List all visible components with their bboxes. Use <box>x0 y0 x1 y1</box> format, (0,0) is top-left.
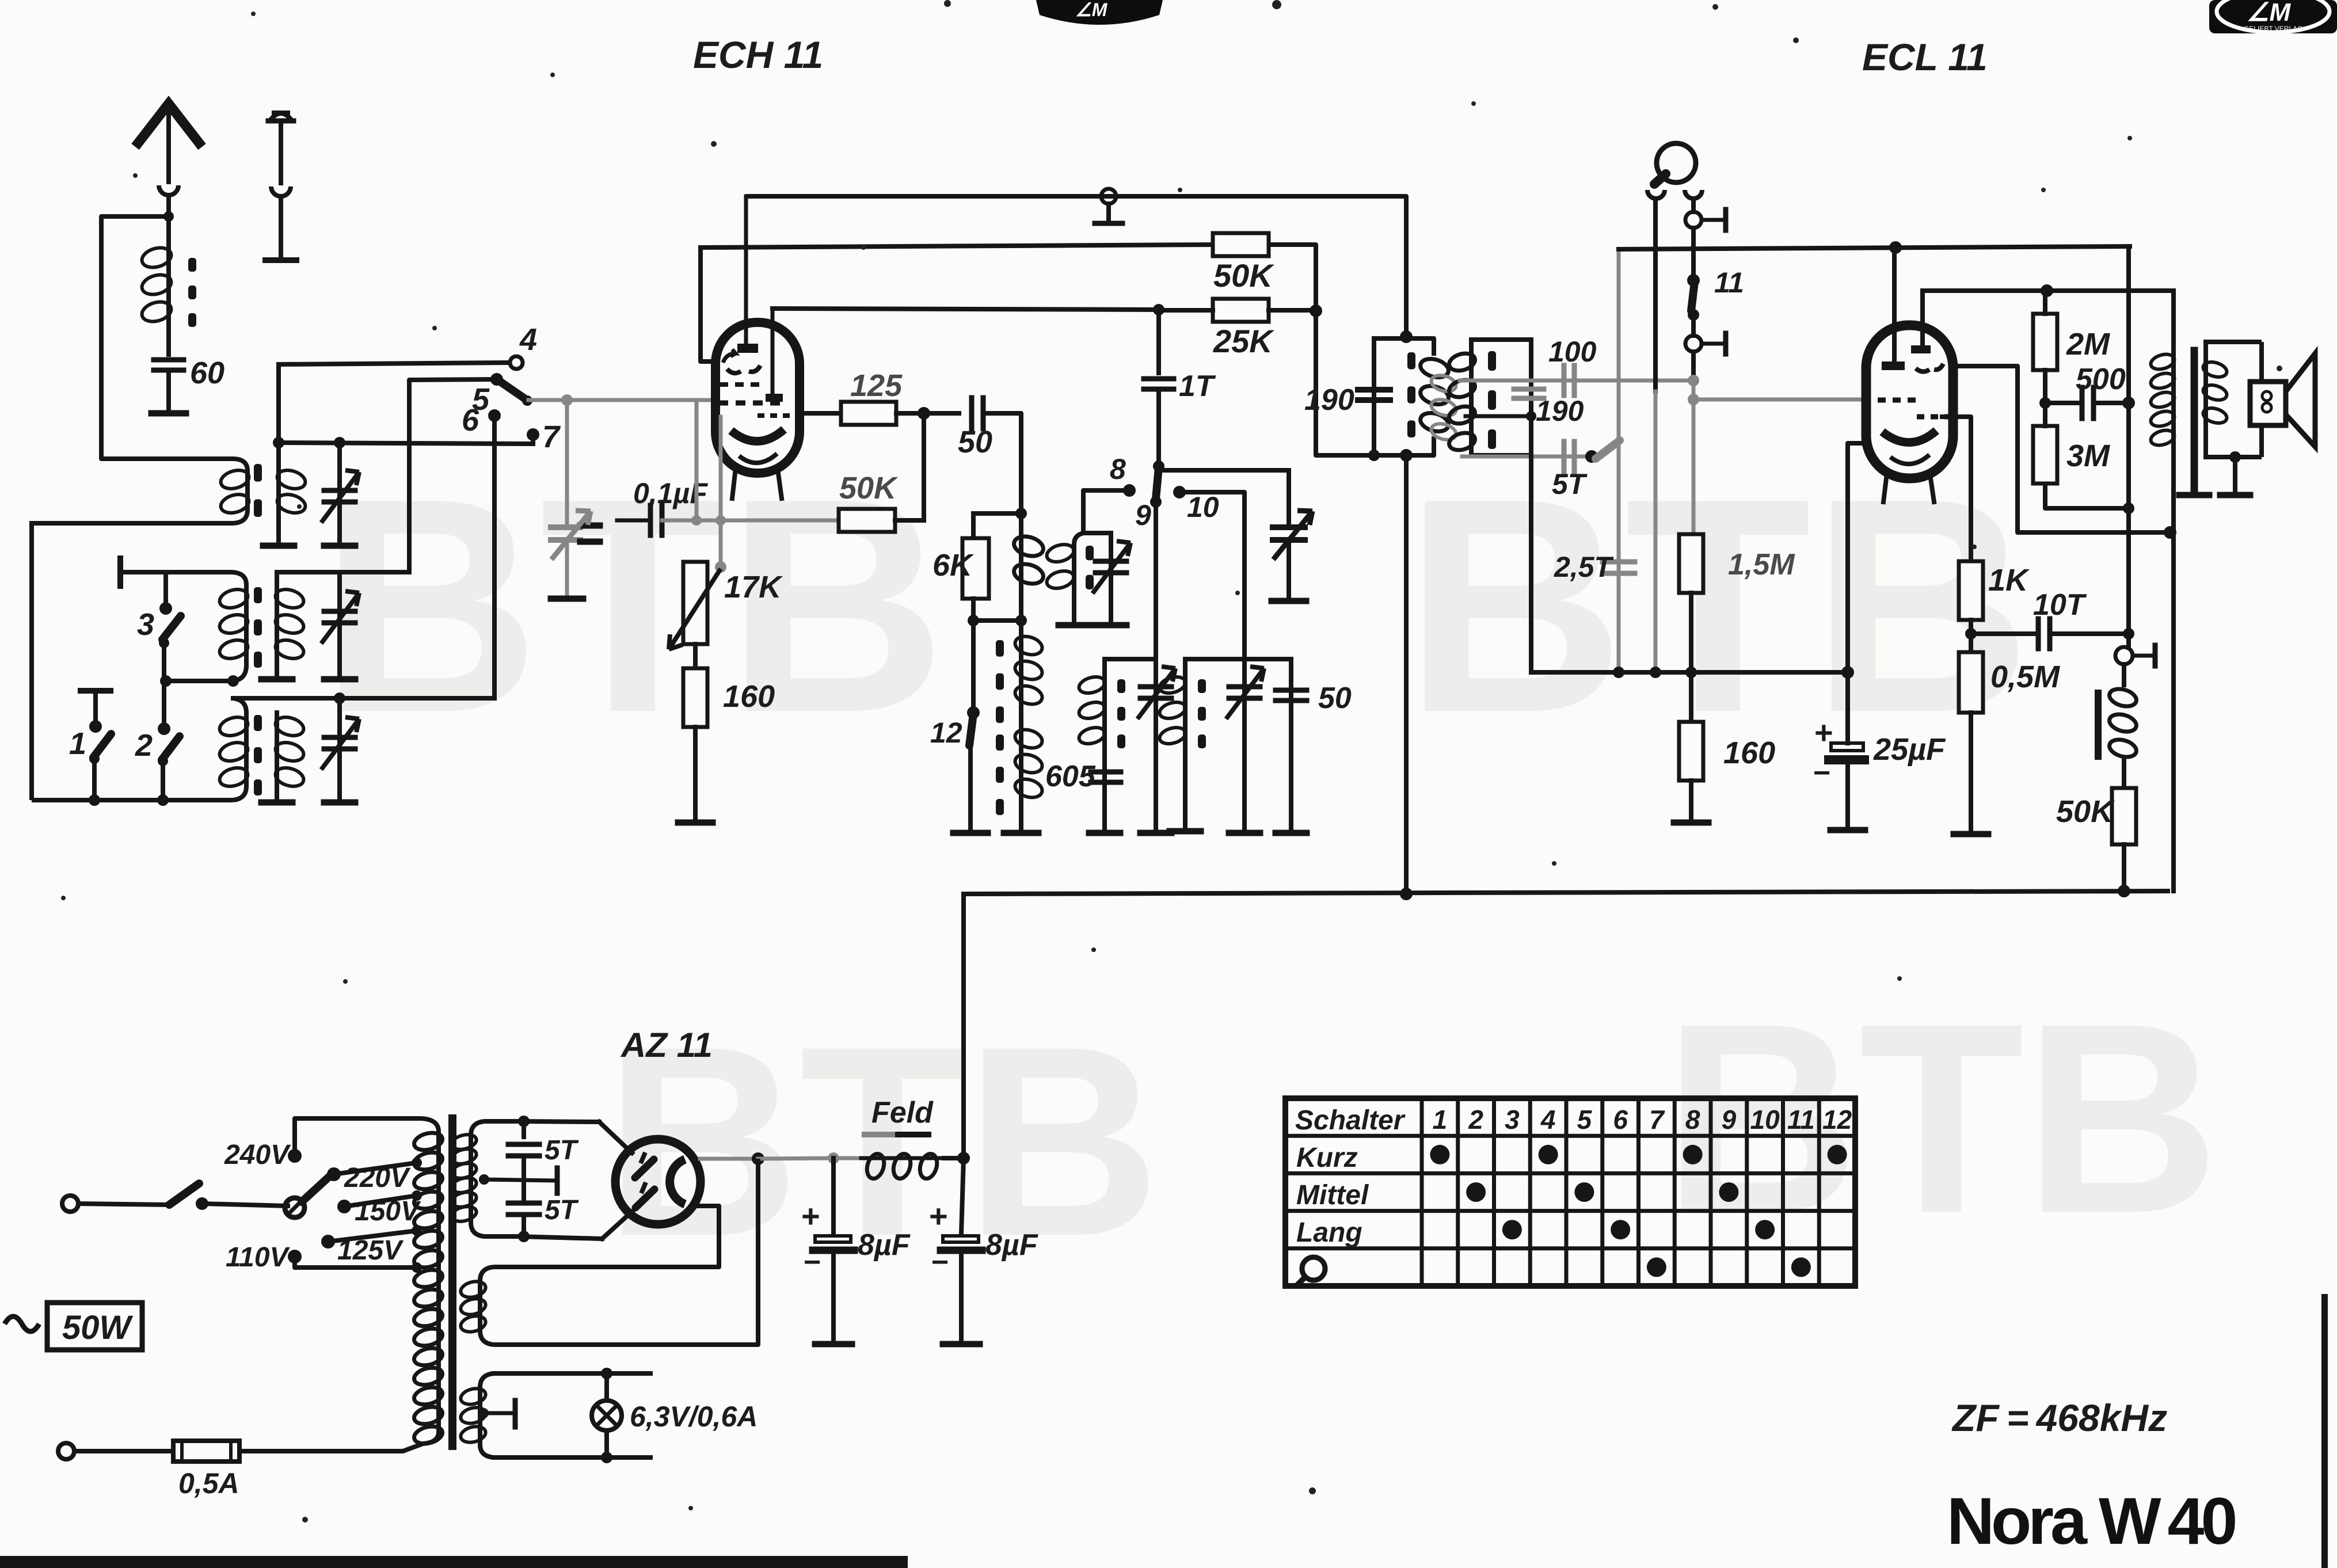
ECL11 plate lead <box>1920 291 1925 345</box>
ground padder <box>1004 830 1038 836</box>
voltage selector rotor <box>285 1198 305 1217</box>
svg-text:50K: 50K <box>2056 794 2115 829</box>
tuning capacitor 1 gray <box>565 400 569 524</box>
svg-text:5T: 5T <box>545 1195 579 1226</box>
wire ECL plate out <box>1953 366 2170 532</box>
wire contact6 down <box>492 422 497 698</box>
wire L2 secondary top <box>277 570 409 574</box>
wire pickup right chain <box>1691 200 1696 212</box>
wire bottom rail left <box>32 798 233 802</box>
ground L1 secondary <box>263 543 294 549</box>
svg-text:12: 12 <box>1822 1105 1852 1135</box>
svg-text:Lang: Lang <box>1296 1217 1362 1248</box>
svg-text:2,5T: 2,5T <box>1554 551 1615 583</box>
svg-text:ZF = 468kHz: ZF = 468kHz <box>1951 1396 2167 1439</box>
wire sw9 down <box>1154 502 1158 659</box>
svg-text:Schalter: Schalter <box>1295 1105 1406 1136</box>
funnel diagonals <box>599 1122 632 1153</box>
svg-text:ECL 11: ECL 11 <box>1862 36 1988 78</box>
wire W3 hexode anode line <box>772 309 1159 310</box>
svg-text:160: 160 <box>1723 736 1775 770</box>
wire switch5 left leg <box>409 379 497 572</box>
node IFT top <box>1400 330 1413 343</box>
capacitor 100 <box>1554 379 1693 383</box>
ECH11 cathode <box>731 429 784 442</box>
svg-text:1,5M: 1,5M <box>1728 548 1795 581</box>
node 1T tap <box>1153 304 1164 315</box>
trimmer C3 <box>337 698 342 800</box>
bandfilter L3 primary <box>233 698 246 800</box>
svg-text:2: 2 <box>135 728 153 763</box>
svg-text:−: − <box>931 1246 949 1279</box>
wire filament to AZ11 <box>494 1206 719 1267</box>
ground SW tank <box>1059 622 1090 629</box>
ECL11 grid lead <box>1892 248 1897 361</box>
ground trimmer C2 <box>324 676 355 683</box>
ECH11 legs <box>732 473 735 498</box>
svg-text:8µF: 8µF <box>858 1228 911 1262</box>
svg-text:3: 3 <box>1505 1105 1520 1135</box>
wire row 769 <box>277 443 533 444</box>
heater winding <box>480 1373 494 1457</box>
ground L2 secondary <box>261 676 292 683</box>
capacitor 190 IFT1 <box>1372 338 1376 455</box>
ground 8uF b <box>943 1341 980 1348</box>
wire triode grid lead <box>701 248 717 361</box>
HV center tap <box>479 1174 489 1185</box>
capacitor 60 <box>154 357 184 363</box>
trimmer C1 <box>337 443 342 543</box>
resistor 1,5M <box>1679 534 1703 593</box>
IFT1 primary coil <box>1418 356 1451 380</box>
node 500 left <box>2039 397 2051 409</box>
svg-text:Feld: Feld <box>871 1096 934 1129</box>
node osc row <box>1153 460 1164 472</box>
svg-text:500: 500 <box>2076 363 2126 396</box>
svg-text:∠M: ∠M <box>2247 0 2291 26</box>
svg-text:60: 60 <box>190 356 224 390</box>
switch table <box>1285 1098 1855 1286</box>
core antenna coil <box>188 258 196 272</box>
pilot lamp <box>604 1373 609 1400</box>
svg-text:7: 7 <box>542 420 561 454</box>
pickup sockets <box>1647 190 1665 199</box>
wire 2,5T vertical <box>1617 249 1621 672</box>
svg-text:10T: 10T <box>2033 588 2087 622</box>
ECH11 grid dashes a <box>720 382 759 387</box>
bandfilter L3 secondary <box>275 713 279 800</box>
potentiometer 17K <box>683 562 707 644</box>
LW tank <box>1185 657 1291 661</box>
ECL11 grid2 dashes <box>1917 414 1952 420</box>
capacitor 8uF b <box>961 1158 964 1234</box>
resistor 25K <box>1213 299 1269 322</box>
IFT2 box <box>1471 340 1531 455</box>
svg-text:−: − <box>804 1246 821 1279</box>
wire row 994 <box>120 570 230 574</box>
resistor 50K upper <box>1213 233 1269 256</box>
wire screen to primary <box>2171 291 2176 342</box>
mains switch <box>169 1183 199 1205</box>
svg-text:Mittel: Mittel <box>1296 1180 1369 1211</box>
tuning capacitor 2 <box>1273 524 1305 530</box>
svg-text:605: 605 <box>1045 760 1096 793</box>
node row769 b <box>334 437 345 448</box>
node 50K-25K <box>1310 305 1322 317</box>
svg-text:6: 6 <box>1613 1105 1628 1135</box>
svg-text:AZ 11: AZ 11 <box>620 1026 713 1064</box>
svg-text:Nora W 40: Nora W 40 <box>1947 1485 2235 1558</box>
svg-text:12: 12 <box>930 717 962 749</box>
wire IFT1 down to bus <box>1404 455 1409 894</box>
wire cathode down <box>1848 443 1867 672</box>
svg-text:0,5M: 0,5M <box>1990 660 2060 694</box>
contact 8 <box>1123 484 1136 497</box>
power transformer core <box>448 1118 456 1446</box>
resistor 1K <box>1959 561 1983 620</box>
svg-text:160: 160 <box>723 679 775 714</box>
node IFT bottom <box>1368 450 1380 461</box>
bandfilter L2 primary <box>230 572 246 681</box>
link 125-50K vertical <box>922 413 926 520</box>
svg-text:100: 100 <box>1548 336 1597 368</box>
ECL11 grid1 dashes <box>1878 398 1916 403</box>
switch 9 <box>1156 467 1159 498</box>
earth terminal <box>271 113 291 120</box>
wire W2 grid line <box>701 245 1213 248</box>
node 100 junction <box>1688 375 1699 386</box>
node 500 right <box>2122 397 2135 409</box>
svg-text:9: 9 <box>1135 499 1151 531</box>
LW coil <box>1183 659 1187 829</box>
node antenna junction <box>163 211 174 222</box>
svg-text:240V: 240V <box>224 1140 291 1170</box>
ground trimmer C3 <box>324 800 355 806</box>
capacitor 8uF a <box>831 1158 836 1234</box>
svg-text:17K: 17K <box>724 570 783 604</box>
capacitor 50 LW <box>1289 659 1293 831</box>
IFT1 secondary gray <box>1429 372 1457 394</box>
svg-text:Kurz: Kurz <box>1296 1143 1358 1173</box>
wire osc top <box>973 511 1021 516</box>
svg-text:6K: 6K <box>932 548 975 583</box>
switch 1 <box>89 720 102 733</box>
resistor 6K <box>971 513 976 538</box>
capacitor 50 <box>969 398 975 429</box>
wire 8 to SW coil <box>1083 490 1129 532</box>
ground tuning cap 1 <box>551 596 583 602</box>
svg-text:25K: 25K <box>1213 323 1274 359</box>
50W box <box>5 1316 39 1331</box>
wire screen line <box>1923 288 2174 293</box>
svg-text:ECH 11: ECH 11 <box>693 33 823 76</box>
IFT2 bottom lead gray <box>1462 455 1554 459</box>
terminal W1 <box>1101 189 1116 204</box>
svg-text:1: 1 <box>1433 1105 1448 1135</box>
osc feedback coil <box>1019 513 1023 621</box>
svg-text:4: 4 <box>1540 1105 1556 1135</box>
capacitor 1T <box>1156 310 1161 373</box>
bandfilter L1 secondary <box>276 364 281 543</box>
ground 25uF <box>1830 827 1865 834</box>
phono icon <box>1302 1257 1325 1280</box>
svg-text:1: 1 <box>69 726 86 761</box>
node after 125 <box>896 411 924 416</box>
core LW <box>1198 679 1206 693</box>
partial logo top center <box>1036 0 1163 25</box>
ground secondary <box>2233 457 2237 493</box>
svg-text:7: 7 <box>1649 1105 1665 1135</box>
svg-text:190: 190 <box>1536 395 1584 427</box>
svg-text:4: 4 <box>519 322 537 357</box>
wire detector rail <box>1531 670 1848 675</box>
padder coil <box>1019 621 1023 831</box>
core IFT1 <box>1407 352 1415 370</box>
wire pickup left down <box>1653 200 1658 391</box>
ground 0,5M <box>1954 831 1988 838</box>
gray wire tube to 17K <box>695 400 699 520</box>
ECH11 signal grid dashes <box>718 401 780 406</box>
wire top row to tuning cap 2 <box>1159 468 1289 473</box>
ground LW coil <box>1170 828 1201 835</box>
output core <box>2191 351 2198 488</box>
tube ECH11 <box>715 322 800 473</box>
svg-text:50W: 50W <box>62 1309 134 1346</box>
svg-text:8: 8 <box>1685 1105 1700 1135</box>
heater chassis tap <box>478 1408 489 1418</box>
svg-text:11: 11 <box>1787 1105 1815 1135</box>
wire sw chain down <box>162 681 166 729</box>
scan right border <box>2321 1294 2328 1568</box>
detector switch blade <box>1585 450 1598 463</box>
svg-text:11: 11 <box>1714 267 1744 299</box>
feedback vertical <box>2126 246 2131 634</box>
wire to contact 4 <box>279 363 508 364</box>
resistor 2M <box>2033 314 2057 370</box>
jack lower <box>1685 336 1702 352</box>
svg-text:110V: 110V <box>226 1242 291 1273</box>
svg-text:8µF: 8µF <box>985 1228 1038 1262</box>
wire AVC line <box>1619 246 2130 249</box>
wire B+ bus <box>964 891 2170 894</box>
wire 50 to osc column <box>985 413 1021 513</box>
svg-text:6: 6 <box>462 403 479 437</box>
svg-text:0,5A: 0,5A <box>178 1467 239 1500</box>
svg-text:125: 125 <box>850 368 903 403</box>
core bar feedback <box>2095 693 2102 756</box>
ECH11 hexode anode <box>766 394 783 402</box>
wire grid2 to 1K <box>1940 417 1971 561</box>
wire 10 right down <box>1179 492 1244 659</box>
resistor 160 <box>683 668 707 727</box>
node ECL grid lead <box>1889 241 1902 254</box>
capacitor 5T det <box>1562 442 1567 471</box>
mains terminal upper <box>62 1196 78 1212</box>
feedback coil <box>2122 664 2126 685</box>
svg-text:−: − <box>1813 756 1830 790</box>
svg-text:GELIEBT VERLAG: GELIEBT VERLAG <box>2244 25 2303 33</box>
AZ11 cathode <box>670 1159 685 1204</box>
ground 160 <box>678 820 713 826</box>
resistor 50K feedback <box>2112 788 2136 844</box>
wire 1,5M down <box>1689 593 1693 672</box>
contact 10 <box>1173 486 1186 498</box>
IFT2 coil <box>1447 351 1477 374</box>
HV secondary <box>471 1121 518 1236</box>
tube ECL11 <box>1866 325 1953 478</box>
ground trimmer MW <box>1140 830 1171 836</box>
antenna <box>135 104 202 147</box>
IFT2 top lead gray <box>1460 379 1554 383</box>
wire row 1213 <box>233 696 494 701</box>
wire fuse to primary <box>239 1444 423 1451</box>
svg-text:1K: 1K <box>1988 563 2030 597</box>
capacitor 500 <box>2045 401 2081 405</box>
ground 8uF a <box>815 1341 852 1348</box>
svg-text:BTB: BTB <box>1405 435 2031 776</box>
svg-text:+: + <box>801 1198 820 1234</box>
ECH11 hexode grid dashes <box>758 413 790 418</box>
capacitor 605 <box>1091 770 1121 775</box>
switch 5 <box>490 373 503 386</box>
switch 2 <box>158 722 170 735</box>
filament winding <box>480 1267 494 1345</box>
core L1 <box>254 464 262 482</box>
jack upper <box>1685 212 1702 228</box>
svg-text:3: 3 <box>137 607 154 642</box>
core MW <box>1117 679 1125 693</box>
resistor 125 <box>841 402 896 425</box>
ground sw12 <box>953 830 988 836</box>
output secondary <box>2203 342 2208 457</box>
svg-text:+: + <box>929 1198 948 1234</box>
SW osc tank coil <box>1081 490 1086 533</box>
svg-text:2M: 2M <box>2066 327 2110 361</box>
svg-text:50K: 50K <box>839 471 899 505</box>
trimmer LW <box>1229 684 1260 690</box>
gray wire to ECL11 grid <box>1693 398 1868 402</box>
pickup <box>1657 143 1696 182</box>
ground trimmer C1 <box>324 543 355 549</box>
wire IFT2 edge down <box>1529 416 1533 672</box>
ECH11 triode grid <box>727 366 760 373</box>
trimmer C2 <box>337 572 342 677</box>
core IFT2 <box>1488 351 1496 371</box>
resistor 0,5M <box>1969 620 1973 652</box>
AZ11 output gray <box>700 1157 758 1161</box>
speckles <box>1272 0 1281 9</box>
node osc row2 <box>968 615 979 626</box>
capacitor 190 IFT2 gray <box>1514 387 1544 392</box>
svg-text:3M: 3M <box>2066 439 2110 473</box>
switch 11 <box>1691 248 1696 274</box>
gray wire 0,1uF to 50K <box>662 519 839 523</box>
ground 605 <box>1089 830 1120 836</box>
IFT2 center tap <box>1466 414 1531 418</box>
heater box <box>494 1371 650 1376</box>
wire node down to IFT rail <box>1316 311 1374 455</box>
wire antenna left branch <box>101 216 233 459</box>
core L2 <box>254 587 262 603</box>
svg-text:25µF: 25µF <box>1873 732 1946 767</box>
AZ11 diodes <box>635 1159 654 1178</box>
trimmer SW <box>1109 533 1113 623</box>
capacitor 5T b <box>508 1201 539 1206</box>
node row1183 <box>160 675 172 687</box>
contact 7 <box>527 428 539 441</box>
trimmer MW <box>1140 684 1171 690</box>
scan bottom border <box>0 1556 908 1568</box>
capacitor 5T a <box>518 1116 530 1127</box>
ground tuning cap 2 <box>1272 598 1306 604</box>
speaker <box>2250 382 2286 425</box>
svg-text:5T: 5T <box>545 1135 579 1166</box>
node 1K bottom <box>1965 628 1977 640</box>
antenna plug <box>159 185 178 195</box>
ECL11 legs <box>1883 478 1886 502</box>
wire 50K to node <box>1269 245 1316 310</box>
wire grid line gray <box>528 398 717 402</box>
tone jack <box>2126 634 2131 648</box>
bandfilter L2 secondary <box>275 572 279 677</box>
ground 60 <box>151 410 186 417</box>
fuse 0,5A <box>58 1443 74 1459</box>
MW tank <box>1105 657 1156 661</box>
svg-text:∠M: ∠M <box>1075 0 1108 20</box>
svg-text:190: 190 <box>1304 383 1354 417</box>
IFT1 box <box>1374 338 1434 356</box>
svg-text:9: 9 <box>1722 1105 1737 1135</box>
core padder <box>996 640 1004 657</box>
node row769 a <box>273 437 284 448</box>
capacitor 10T <box>1971 631 2038 636</box>
svg-text:50: 50 <box>1318 682 1352 715</box>
MW coil <box>1102 659 1107 831</box>
ground L3 secondary <box>261 800 292 806</box>
svg-text:8: 8 <box>1110 453 1126 485</box>
svg-text:5T: 5T <box>1552 468 1588 500</box>
svg-text:6,3V/0,6A: 6,3V/0,6A <box>630 1400 758 1433</box>
svg-text:50K: 50K <box>1213 257 1274 294</box>
ground 50 LW <box>1276 830 1307 836</box>
ground core <box>2193 488 2197 493</box>
ground 160 det <box>1674 820 1708 826</box>
bandfilter L1 primary <box>32 459 248 800</box>
core L3 <box>254 715 262 731</box>
svg-text:10: 10 <box>1750 1105 1780 1135</box>
node plate-primary <box>2164 526 2176 539</box>
wire W1 <box>746 196 1406 337</box>
resistor 160 det <box>1689 672 1693 722</box>
resistor 50K lower <box>839 509 895 532</box>
svg-text:50: 50 <box>958 425 992 459</box>
HV box to funnel <box>518 1121 599 1122</box>
contact 6 <box>488 409 501 422</box>
svg-text:2: 2 <box>1468 1105 1483 1135</box>
output transformer primary <box>2171 342 2176 891</box>
core SW tank <box>1086 546 1094 560</box>
resistor 3M <box>2033 426 2057 484</box>
ECL11 cathode <box>1882 431 1936 443</box>
svg-text:5: 5 <box>1577 1105 1593 1135</box>
ground trimmer LW <box>1229 830 1260 836</box>
svg-text:1T: 1T <box>1179 370 1216 403</box>
wire bus down to rectifier <box>961 894 966 1158</box>
svg-text:10: 10 <box>1187 491 1219 523</box>
wire plate to 125 <box>800 411 841 416</box>
power transformer primary <box>420 1118 439 1444</box>
antenna coil <box>166 216 171 244</box>
